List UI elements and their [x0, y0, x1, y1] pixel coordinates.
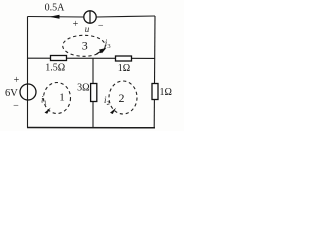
resistor 3ohm	[91, 84, 97, 102]
wire bottom	[27, 127, 155, 129]
svg-text:1Ω: 1Ω	[118, 63, 130, 74]
wire left side	[27, 17, 29, 128]
svg-text:0.5A: 0.5A	[45, 3, 66, 14]
wire middle vertical	[92, 58, 94, 127]
mesh current i1 loop	[44, 83, 71, 114]
mesh current i3 loop	[63, 35, 107, 56]
svg-text:−: −	[13, 100, 19, 111]
svg-text:−: −	[98, 21, 104, 32]
wire top left segment	[28, 16, 84, 19]
svg-text:1Ω: 1Ω	[160, 87, 172, 98]
wire right side	[153, 16, 156, 128]
svg-text:2: 2	[119, 91, 125, 105]
svg-text:+: +	[14, 75, 20, 86]
resistor 1ohm top	[116, 56, 132, 61]
current arrowhead 0.5A	[49, 15, 59, 19]
svg-text:3Ω: 3Ω	[77, 82, 89, 93]
voltage source 6V circle	[20, 84, 36, 100]
svg-text:+: +	[73, 19, 79, 30]
wire middle horizontal	[27, 57, 155, 59]
svg-text:6V: 6V	[5, 88, 18, 99]
svg-text:3: 3	[82, 39, 88, 53]
current source U circle	[84, 11, 96, 24]
svg-text:1: 1	[59, 92, 65, 104]
svg-text:1.5Ω: 1.5Ω	[45, 63, 65, 74]
mesh current i2 loop	[109, 81, 137, 114]
resistor 1ohm right	[152, 84, 158, 100]
svg-text:u: u	[85, 24, 90, 34]
resistor 1.5ohm	[51, 56, 67, 61]
wire top right segment	[97, 16, 156, 17]
